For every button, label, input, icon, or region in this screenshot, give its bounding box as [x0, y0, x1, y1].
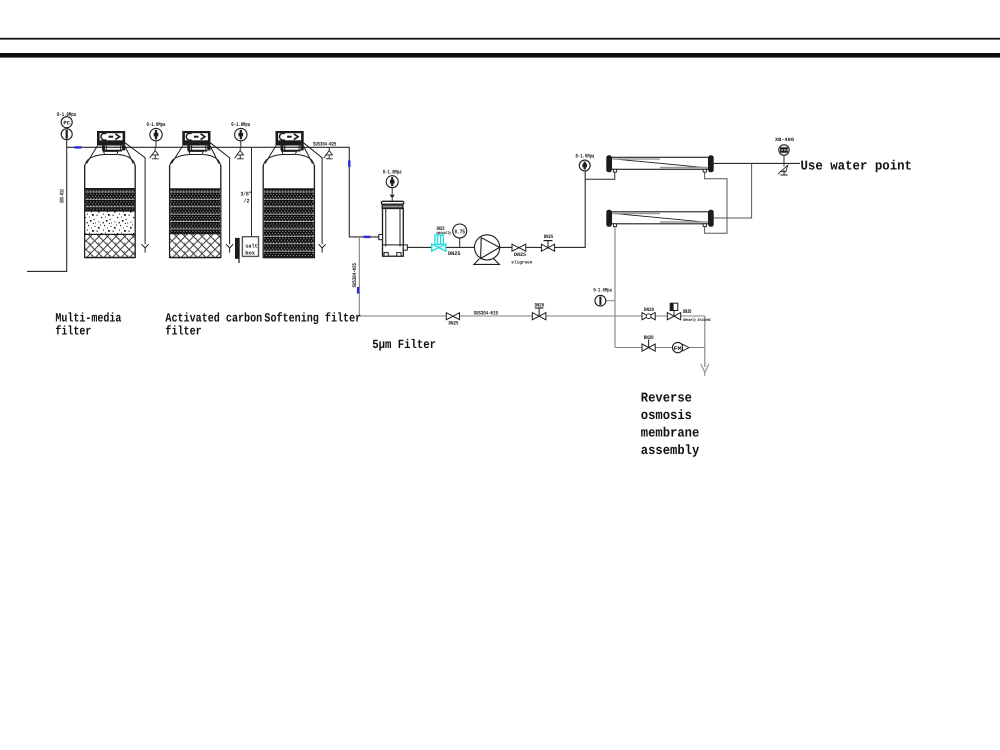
svg-text:DN20: DN20	[644, 335, 654, 341]
gauge branch pipe	[606, 300, 615, 302]
svg-text:eligreen: eligreen	[511, 260, 532, 266]
actuated valve AV1	[667, 303, 680, 320]
motor indicator M1	[453, 224, 467, 247]
pneumatic valve (cyan) PV1	[432, 235, 446, 251]
svg-text:SUS304-Φ19: SUS304-Φ19	[474, 311, 499, 317]
svg-text:DN20: DN20	[535, 302, 545, 308]
svg-text:PC: PC	[63, 120, 70, 127]
backwash drain pipe of tank T2 activated carbon	[210, 143, 233, 253]
svg-text:Reverse: Reverse	[641, 392, 692, 407]
backwash drain pipe of tank T3 softener	[304, 143, 326, 253]
svg-text:/2: /2	[244, 198, 251, 205]
tap symbol	[778, 163, 788, 175]
raw water inlet pipe	[27, 140, 67, 271]
svg-text:FM: FM	[674, 346, 682, 352]
svg-text:densely drained: densely drained	[683, 317, 711, 323]
top thick rule	[0, 53, 1000, 58]
salt tank	[235, 237, 259, 263]
svg-text:osmosis: osmosis	[641, 409, 692, 424]
drain arrow	[701, 364, 709, 376]
svg-text:0-1.6Mpa: 0-1.6Mpa	[576, 153, 595, 160]
node dash 2	[348, 160, 350, 167]
svg-text:3/8″: 3/8″	[241, 190, 252, 197]
svg-text:SUS304-Φ25: SUS304-Φ25	[313, 142, 336, 148]
svg-text:DN25: DN25	[437, 226, 445, 232]
RO membrane vessel 1	[606, 155, 713, 172]
svg-text:SUS-Φ32: SUS-Φ32	[59, 189, 66, 203]
svg-text:membrane: membrane	[641, 426, 700, 441]
svg-text:DN20: DN20	[644, 307, 654, 313]
brine pipe to salt tank	[251, 147, 253, 243]
node dash 1	[75, 146, 82, 148]
filter tank T3 softener	[263, 131, 314, 258]
pressure gauge PG1	[147, 121, 166, 147]
svg-text:XB-400: XB-400	[775, 137, 794, 143]
top thin rule	[0, 38, 1000, 40]
flush valve FV1	[446, 313, 459, 320]
svg-text:0-1.6Mpa: 0-1.6Mpa	[593, 288, 612, 294]
pressure gauge PG3	[383, 168, 402, 194]
svg-text:filter: filter	[55, 325, 91, 339]
inlet pressure gauge PG0	[57, 111, 76, 140]
svg-text:DN25: DN25	[448, 251, 461, 257]
vent valve S1	[150, 147, 159, 159]
vent valve S2	[235, 147, 244, 159]
pressure gauge PG4	[576, 153, 595, 172]
node dash 3	[364, 236, 371, 238]
svg-text:0-1.0Mpa: 0-1.0Mpa	[231, 121, 250, 128]
product drop pipe from vessel 2	[714, 163, 752, 218]
check valve CV1	[512, 244, 526, 251]
svg-text:0-1.0Mpa: 0-1.0Mpa	[383, 168, 402, 175]
globe valve GV1	[541, 241, 554, 252]
svg-text:DN20: DN20	[683, 308, 692, 315]
vent valve S3	[324, 147, 333, 159]
filter tank T2 activated carbon	[170, 131, 221, 258]
main process pipe through tanks	[67, 147, 381, 237]
node dash 4	[357, 287, 359, 294]
backwash drain pipe of tank T1 multi-media	[125, 143, 149, 253]
svg-text:0-1.0Mpa: 0-1.0Mpa	[147, 121, 166, 128]
concentrate down pipe from vessel 2	[614, 227, 616, 348]
RO membrane vessel 2	[606, 210, 713, 227]
centrifugal pump P1	[474, 235, 500, 265]
throttle valve TV1	[642, 313, 655, 320]
pump suction/discharge pipe	[407, 171, 585, 247]
feed pipe to membrane vessel 1	[585, 172, 615, 179]
drain valve DV1	[642, 340, 655, 352]
svg-text:assembly: assembly	[641, 444, 700, 459]
use point flow meter FM0	[775, 137, 794, 163]
svg-text:salt: salt	[245, 244, 257, 250]
filter tank T1 multi-media	[85, 131, 136, 258]
pressure gauge PG2	[231, 121, 250, 147]
svg-text:DN25: DN25	[514, 252, 526, 258]
svg-text:DN25: DN25	[449, 321, 459, 327]
svg-text:Activated carbon: Activated carbon	[165, 311, 262, 325]
5um cartridge filter F1	[379, 195, 408, 257]
flush globe valve FV2	[532, 308, 546, 320]
svg-text:Softening filter: Softening filter	[264, 311, 361, 325]
svg-text:Use water point: Use water point	[801, 160, 913, 175]
product pipe to use point	[714, 162, 800, 164]
svg-text:filter: filter	[165, 325, 201, 339]
svg-text:box: box	[245, 251, 255, 257]
drain pipe lower branch	[615, 316, 705, 367]
flow meter FM1	[673, 342, 690, 352]
pressure gauge PG5	[593, 288, 612, 307]
svg-text:0.75: 0.75	[454, 228, 465, 235]
svg-text:Multi-media: Multi-media	[55, 311, 121, 325]
svg-text:SUS304-Φ25: SUS304-Φ25	[351, 262, 358, 287]
concentrate U pipe vessel1-vessel2	[705, 172, 727, 233]
flush riser pipe	[359, 237, 705, 316]
svg-text:DN25: DN25	[544, 234, 554, 240]
svg-text:5μm Filter: 5μm Filter	[372, 338, 436, 352]
